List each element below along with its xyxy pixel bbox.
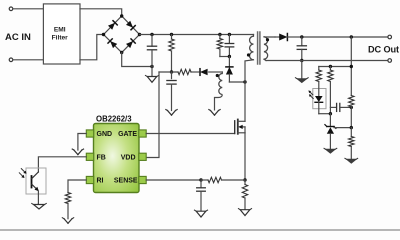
node snubber tie <box>228 55 231 58</box>
optocoupler phototransistor <box>32 172 39 204</box>
DC output terminal (minus) <box>388 59 392 63</box>
diode D7 output rectifier <box>275 34 302 41</box>
light arrows into phototransistor <box>19 169 26 178</box>
wire snubber RC tie <box>220 56 230 58</box>
AC IN label <box>5 32 31 43</box>
resistor R8 RI <box>65 193 70 219</box>
node fb rail at riser <box>350 65 353 68</box>
capacitor C4 output <box>297 37 306 61</box>
node divider tap <box>350 126 353 129</box>
diode D5 VDD rectifier <box>200 69 208 76</box>
node source sense <box>243 178 246 181</box>
node fb rail at R bias <box>329 65 332 68</box>
svg-text:RI: RI <box>97 178 104 185</box>
ground RI resistor <box>62 218 73 224</box>
bridge diode D3 (bottom-left edge) <box>108 39 117 48</box>
svg-text:FB: FB <box>97 155 106 162</box>
wire clamp to drain <box>229 81 245 83</box>
capacitor C5 compensation <box>330 103 351 111</box>
resistor R3 snubber <box>217 35 222 57</box>
svg-text:GATE: GATE <box>118 131 137 138</box>
node comp cap to divider <box>350 106 353 109</box>
svg-text:GND: GND <box>97 131 113 138</box>
node primary polarity dot <box>247 53 250 56</box>
wire source <box>244 133 246 180</box>
wire EMI bottom to bridge AC2 <box>80 35 104 60</box>
wire aux bottom to ground <box>215 95 223 111</box>
node sense RC <box>199 178 202 181</box>
ground divider <box>345 158 358 163</box>
ground primary bulk <box>145 67 158 83</box>
bridge rectifier BR1 frame <box>104 16 140 53</box>
wire DC+ line <box>302 36 390 38</box>
wire LED cathode jog <box>319 113 331 115</box>
resistor R9 sense series <box>201 177 245 182</box>
optocoupler U2 LED box <box>313 89 326 109</box>
winding aux <box>219 74 222 95</box>
capacitor C1 bulk <box>147 35 156 67</box>
wire FB pin to opto <box>38 157 86 172</box>
optocoupler U2 transistor box <box>26 168 46 194</box>
bridge diode D2 (top-right edge) <box>126 21 135 30</box>
pin GND <box>86 130 112 138</box>
capacitor C6 sense filter <box>197 180 206 211</box>
ground IC GND <box>72 149 83 155</box>
ground sense cap <box>194 210 207 217</box>
resistor R2 VDD series <box>178 69 191 74</box>
svg-text:DC Out: DC Out <box>368 44 399 54</box>
resistor R4 LED series <box>316 67 321 89</box>
resistor R7 divider lower <box>349 128 354 160</box>
resistor R6 divider upper <box>349 96 354 128</box>
page rule <box>0 229 400 231</box>
wire GND pin <box>78 134 86 151</box>
node startup resistor top <box>170 33 173 36</box>
wire GATE to MOSFET <box>146 133 235 135</box>
svg-text:EMI: EMI <box>54 26 66 33</box>
svg-text:VDD: VDD <box>121 155 136 162</box>
pin SENSE <box>114 176 146 184</box>
node TL431 cathode <box>329 112 332 115</box>
pin RI <box>86 176 103 184</box>
IC U1 OB2262/3 body <box>94 124 140 193</box>
node output cap top <box>300 35 303 38</box>
IC label OB2262/3 <box>96 114 132 123</box>
DC output terminal (plus) <box>388 35 392 39</box>
AC input terminal (top) <box>9 7 43 11</box>
wire DC- line <box>266 60 389 62</box>
node secondary polarity dot <box>266 38 269 41</box>
resistor R5 LED bias <box>328 67 333 114</box>
diode D6 clamp <box>226 57 233 83</box>
TL431 U3 (zener symbol) <box>325 114 336 150</box>
node feedback tap on DC+ <box>350 35 353 38</box>
bridge diode D1 (left-top edge) <box>108 21 117 30</box>
wire TL431 ref <box>334 127 351 129</box>
svg-text:OB2262/3: OB2262/3 <box>96 114 132 123</box>
winding primary <box>245 35 254 83</box>
pin GATE <box>118 130 146 138</box>
resistor R10 sense <box>242 180 247 210</box>
node bulk cap negative <box>150 65 153 68</box>
pin FB <box>86 153 106 161</box>
ground TL431 <box>324 148 337 153</box>
svg-text:Filter: Filter <box>52 34 69 41</box>
wire feedback riser <box>350 37 352 96</box>
wire EMI top to bridge AC1 <box>80 9 122 16</box>
ground aux winding <box>209 110 220 116</box>
node snubber C top <box>228 33 231 36</box>
node snubber R top <box>218 33 221 36</box>
wire bridge negative return <box>122 53 152 67</box>
LED emission arrows <box>308 90 313 98</box>
ground sense resistor <box>238 209 251 216</box>
winding secondary <box>264 37 275 61</box>
wire HV+ bus <box>140 34 254 36</box>
capacitor C3 snubber <box>225 35 234 57</box>
AC input terminal (bottom) <box>9 58 43 62</box>
wire RI pin <box>68 180 86 193</box>
wire SENSE pin to node <box>146 179 201 181</box>
svg-text:AC IN: AC IN <box>5 32 31 43</box>
DC Out label <box>368 44 399 54</box>
LED of optocoupler <box>315 89 323 114</box>
wire drain <box>244 82 246 121</box>
wire VDD riser to pin <box>147 72 160 158</box>
node clamp drain junction <box>243 80 246 83</box>
node VDD rail <box>170 70 173 73</box>
svg-text:SENSE: SENSE <box>114 178 138 185</box>
pin VDD <box>121 153 146 161</box>
wire feedback rail <box>319 66 352 68</box>
wire VDD rail <box>159 72 222 74</box>
transistor Q1 MOSFET <box>235 120 245 134</box>
bridge diode D4 (bottom-right edge) <box>126 39 135 48</box>
core transformer <box>258 32 260 64</box>
capacitor C2 VDD <box>167 72 176 111</box>
node aux polarity dot <box>216 74 219 77</box>
resistor R1 startup <box>169 35 174 73</box>
node bulk cap positive <box>150 33 153 36</box>
ground VDD cap <box>166 110 177 116</box>
bridge corner junctions <box>102 14 141 54</box>
node output cap bottom <box>300 59 303 62</box>
EMI filter block <box>43 4 80 64</box>
ground secondary at output cap <box>295 61 308 83</box>
ground opto emitter <box>32 203 47 209</box>
